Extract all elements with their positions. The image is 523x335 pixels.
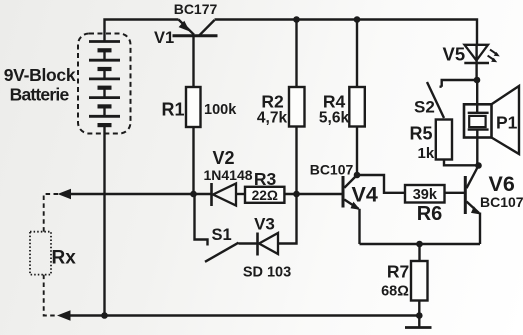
svg-text:SD 103: SD 103 [243,265,291,281]
svg-text:100k: 100k [204,102,237,118]
svg-text:V3: V3 [254,215,275,234]
svg-text:1N4148: 1N4148 [203,167,252,183]
svg-text:Rx: Rx [52,248,77,269]
svg-text:R3: R3 [254,169,277,189]
svg-text:BC107: BC107 [310,162,354,178]
svg-text:Batterie: Batterie [10,85,70,105]
svg-text:S1: S1 [212,226,232,244]
svg-text:4,7k: 4,7k [257,110,288,127]
svg-text:V6: V6 [489,172,515,196]
svg-text:22Ω: 22Ω [252,188,278,203]
svg-text:BC107: BC107 [480,194,523,210]
svg-text:R1: R1 [161,100,184,120]
svg-text:39k: 39k [413,187,438,203]
svg-text:5,6k: 5,6k [319,110,350,127]
svg-text:BC177: BC177 [174,1,218,17]
svg-text:S2: S2 [414,98,435,117]
svg-text:R6: R6 [417,203,443,225]
svg-text:V1: V1 [154,29,174,47]
svg-text:R2: R2 [261,92,284,112]
svg-text:R5: R5 [410,124,433,144]
svg-text:1k: 1k [418,145,435,162]
svg-text:V2: V2 [212,148,234,168]
svg-text:V5: V5 [443,44,466,65]
svg-text:V4: V4 [352,183,378,207]
svg-text:9V-Block: 9V-Block [4,65,76,85]
svg-text:R7: R7 [387,262,409,282]
svg-text:R4: R4 [323,92,346,112]
svg-text:68Ω: 68Ω [381,284,409,300]
svg-text:P1: P1 [496,113,518,133]
